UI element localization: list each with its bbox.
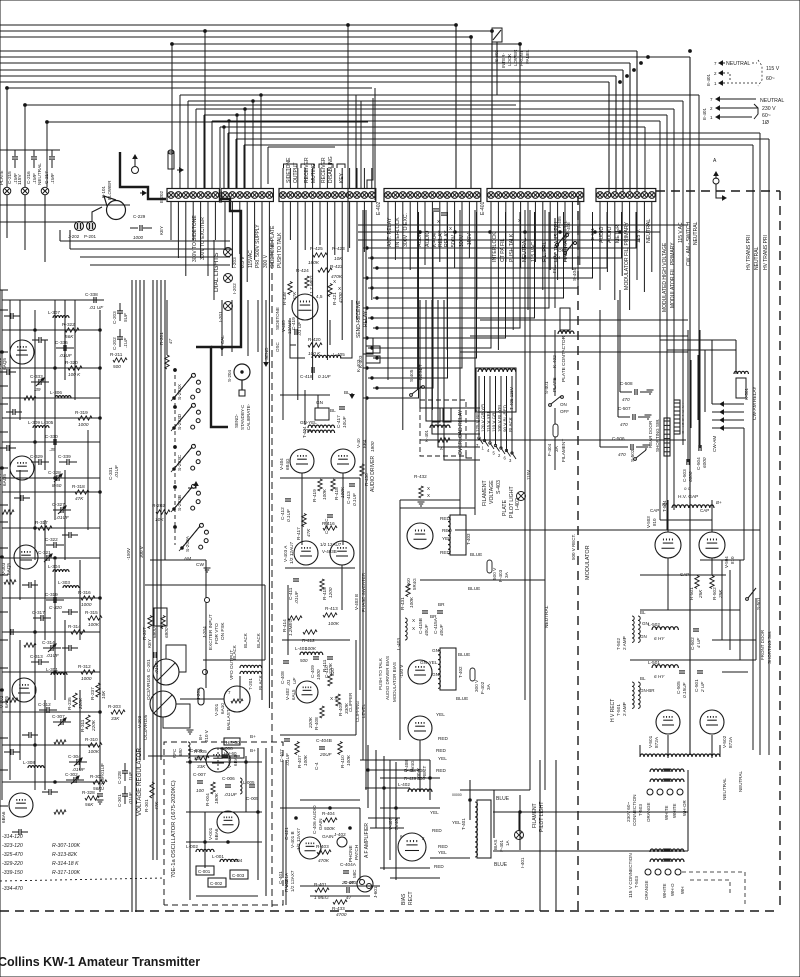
- svg-text:115 V CONNECTION: 115 V CONNECTION: [628, 853, 633, 898]
- wire: [0, 75, 616, 77]
- wire: [0, 701, 8, 703]
- component C-339: [66, 459, 68, 465]
- wire: [430, 857, 470, 859]
- wire: [373, 212, 433, 388]
- component: [24, 643, 36, 647]
- wire: [690, 360, 692, 428]
- wire: [0, 574, 8, 576]
- component C-312: [46, 707, 48, 713]
- svg-text:1000: 1000: [78, 422, 89, 427]
- wire: [54, 560, 56, 700]
- transformer T-503 230V: [650, 769, 670, 772]
- wire: [156, 280, 158, 860]
- junction: [34, 329, 37, 332]
- resistor R-501 25K: [695, 576, 699, 589]
- svg-text:5R4G: 5R4G: [412, 578, 417, 590]
- svg-text:T-201: T-201: [248, 678, 253, 690]
- wire: [700, 559, 744, 561]
- arrow: [44, 554, 52, 562]
- svg-text:BLUE: BLUE: [470, 552, 482, 557]
- svg-text:OFF: OFF: [558, 248, 568, 253]
- wire: [19, 300, 21, 420]
- relay K-401 coils: [432, 408, 440, 422]
- wire: [0, 50, 637, 52]
- component C-333: [38, 379, 40, 385]
- svg-text:.01UF: .01UF: [128, 791, 133, 805]
- svg-text:NEUTRAL: NEUTRAL: [544, 605, 550, 628]
- wafer rotor dashed line: [174, 368, 176, 545]
- resistor chain R-50x: [664, 418, 670, 456]
- wire: [461, 202, 463, 330]
- svg-text:R-319: R-319: [75, 410, 88, 415]
- label GN-YEL BL arrows: [351, 393, 353, 398]
- svg-text:C-228: C-228: [117, 771, 122, 784]
- svg-text:GN: GN: [432, 672, 439, 677]
- svg-text:E-402: E-402: [376, 201, 382, 215]
- svg-text:8-50: 8-50: [52, 483, 62, 488]
- wire: [712, 639, 756, 641]
- svg-text:S-204: S-204: [227, 369, 232, 382]
- junction: [34, 527, 37, 530]
- wire: [0, 221, 92, 223]
- wire: [557, 202, 559, 280]
- svg-text:NEUTRAL: NEUTRAL: [738, 770, 743, 792]
- svg-text:C-401: C-401: [278, 871, 283, 884]
- label R-301 47K: [150, 782, 154, 798]
- svg-text:500: 500: [113, 364, 121, 369]
- svg-text:R-314: R-314: [68, 624, 81, 629]
- wire: [371, 168, 373, 188]
- wire: [239, 202, 241, 254]
- wire: [360, 101, 362, 188]
- svg-text:6AQ5: 6AQ5: [2, 474, 7, 486]
- svg-text:-334-470: -334-470: [2, 886, 23, 892]
- svg-text:C-008: C-008: [220, 746, 233, 751]
- svg-text:NEUTRAL: NEUTRAL: [760, 98, 784, 104]
- svg-text:BL: BL: [640, 610, 646, 615]
- svg-text:LOCK: LOCK: [507, 54, 512, 66]
- junction: [54, 367, 57, 370]
- svg-text:00000: 00000: [452, 793, 462, 797]
- svg-text:47K: 47K: [154, 801, 159, 810]
- junction: [1, 351, 4, 354]
- wire: [0, 309, 8, 311]
- wire left terminal tails: [6, 195, 8, 238]
- wire: [621, 202, 623, 276]
- wire: [2, 557, 100, 559]
- fuse cylinder: [168, 152, 174, 169]
- capacitor C-402 47: [346, 887, 348, 893]
- wire: [172, 43, 520, 45]
- junction: [99, 367, 102, 370]
- inductor L-403: [405, 618, 407, 640]
- microphone jack MIC J-601: [357, 876, 373, 892]
- svg-text:220K: 220K: [328, 662, 333, 675]
- component: [6, 698, 18, 702]
- svg-text:300 V: 300 V: [474, 679, 479, 692]
- junction: [1, 689, 4, 692]
- wire: [2, 329, 100, 331]
- wire: [549, 202, 551, 270]
- inductor L-402: [408, 789, 432, 792]
- wire: [2, 671, 100, 673]
- component R-312: [81, 670, 95, 674]
- svg-text:BLACK: BLACK: [243, 633, 248, 648]
- resistor R-401 1MEG: [315, 888, 329, 892]
- wire: [69, 230, 71, 249]
- heavy VFO compartment bracket: [196, 347, 228, 427]
- junction: [594, 231, 597, 234]
- junction: [419, 231, 422, 234]
- wire: [195, 109, 197, 188]
- terminal PLATE: [3, 187, 11, 195]
- wire: [380, 777, 440, 779]
- lamp I-402: [517, 492, 526, 501]
- fuse F-405: [558, 234, 566, 244]
- wire: [304, 168, 306, 188]
- junction: [519, 811, 522, 814]
- transformer T-402: [440, 648, 456, 690]
- resistor R-410 100K: [338, 742, 342, 755]
- wire: [223, 127, 225, 188]
- switch tap: [507, 451, 511, 457]
- svg-text:V-503: V-503: [646, 516, 651, 528]
- wire: [264, 585, 266, 660]
- junction: [626, 75, 629, 78]
- inductor L-401 500: [300, 652, 323, 655]
- svg-text:C-006: C-006: [222, 776, 235, 781]
- svg-text:GN-YEL: GN-YEL: [300, 420, 317, 425]
- wire: [370, 827, 404, 829]
- wire: [99, 310, 101, 792]
- wires right mid: [687, 330, 689, 462]
- svg-text:115VAC: 115VAC: [248, 250, 254, 268]
- svg-text:2 AMP: 2 AMP: [622, 636, 627, 650]
- wire oc3 loop: [166, 645, 186, 672]
- switch tap: [512, 453, 516, 459]
- wire: [0, 24, 456, 26]
- wire: [2, 711, 100, 713]
- svg-text:C-001: C-001: [198, 869, 211, 874]
- wire: [615, 76, 617, 192]
- component R-317: [38, 526, 52, 530]
- svg-text:3A: 3A: [486, 683, 491, 690]
- svg-text:1200: 1200: [328, 587, 333, 598]
- component C-336: [63, 345, 65, 351]
- wire: [367, 745, 369, 808]
- svg-text:ON: ON: [560, 402, 567, 407]
- svg-text:S-203A: S-203A: [185, 535, 191, 552]
- svg-text:C-002: C-002: [210, 881, 223, 886]
- svg-text:MODULATED HIGH VOLTAGE: MODULATED HIGH VOLTAGE: [662, 242, 668, 312]
- wire: [368, 817, 400, 819]
- svg-text:R-211: R-211: [110, 352, 123, 357]
- wire: [87, 430, 89, 530]
- wire: [349, 168, 351, 188]
- wire: [164, 280, 166, 560]
- svg-text:C-415B: C-415B: [418, 618, 423, 634]
- terminal: [665, 869, 671, 875]
- component: [10, 749, 12, 755]
- resistor R-403 470K: [317, 850, 331, 854]
- component: [68, 645, 70, 651]
- wire: [224, 202, 226, 250]
- svg-text:C-417: C-417: [336, 415, 341, 428]
- wire label bracket: [301, 164, 314, 168]
- svg-text:L-309 L-305: L-309 L-305: [28, 420, 54, 425]
- wire: [2, 491, 100, 493]
- svg-text:F-404: F-404: [547, 443, 552, 456]
- wire: [383, 756, 385, 870]
- svg-text:470: 470: [620, 422, 628, 427]
- wire: [0, 289, 8, 291]
- svg-text:.01 UF: .01 UF: [89, 305, 104, 310]
- junction: [633, 69, 636, 72]
- svg-text:DISABLING: DISABLING: [328, 156, 334, 183]
- svg-text:OFF: OFF: [560, 409, 569, 414]
- svg-text:10K: 10K: [101, 690, 106, 699]
- junction: [99, 417, 102, 420]
- wire: [687, 770, 689, 851]
- svg-text:115 V.: 115 V.: [636, 229, 642, 243]
- svg-text:T-503: T-503: [638, 804, 643, 816]
- wire: [520, 202, 522, 268]
- svg-text:60~: 60~: [766, 76, 775, 82]
- wire: [363, 212, 636, 248]
- wire: [179, 95, 181, 188]
- capacitor C-415A 40UF: [437, 610, 443, 612]
- tube V-202 OC3/VR105: [153, 659, 179, 685]
- wire: [370, 769, 420, 771]
- wire: [265, 300, 267, 360]
- svg-text:6800: 6800: [152, 627, 157, 638]
- inductor L-502 6HY: [652, 627, 678, 630]
- wire: [236, 115, 238, 188]
- svg-text:R-005: R-005: [194, 749, 207, 754]
- wire: [432, 300, 480, 434]
- wire: [667, 500, 669, 532]
- svg-text:C-322: C-322: [45, 537, 58, 542]
- svg-text:INTERLOCK: INTERLOCK: [492, 232, 498, 262]
- svg-text:810: 810: [652, 518, 657, 526]
- wire: [341, 202, 343, 340]
- wire: [70, 248, 230, 250]
- svg-text:MODULATOR FIL. PRIMARY: MODULATOR FIL. PRIMARY: [670, 242, 676, 308]
- resistor R-202 10K: [156, 510, 170, 514]
- svg-text:C-301: C-301: [117, 794, 122, 807]
- component: [10, 313, 12, 319]
- wire: [493, 790, 495, 838]
- svg-text:6B4G: 6B4G: [285, 458, 290, 470]
- wire: [363, 202, 365, 252]
- wire label bracket: [337, 164, 345, 168]
- svg-text:R-311: R-311: [80, 719, 85, 732]
- wire: [729, 570, 731, 650]
- svg-text:B+: B+: [716, 500, 722, 505]
- wire: [297, 202, 299, 400]
- wire: [211, 121, 213, 188]
- capacitor C-006 .01UF: [225, 784, 231, 786]
- wire: [373, 212, 564, 298]
- svg-text:YEL: YEL: [452, 820, 461, 825]
- svg-text:V-201: V-201: [214, 703, 219, 716]
- wire: [438, 300, 480, 447]
- svg-text:I-401: I-401: [520, 857, 525, 868]
- wire: [363, 212, 462, 368]
- svg-text:BALLAST: BALLAST: [226, 709, 231, 730]
- wire: [180, 698, 224, 700]
- wire: [304, 202, 306, 250]
- svg-text:C-415A: C-415A: [433, 617, 438, 634]
- wire: [629, 63, 631, 192]
- svg-text:FILAMENT: FILAMENT: [482, 480, 488, 506]
- svg-text:C-005: C-005: [246, 796, 259, 801]
- terminal: [677, 789, 683, 795]
- component R-203: [111, 710, 125, 714]
- svg-text:180K: 180K: [214, 792, 219, 804]
- svg-text:R-422: R-422: [330, 264, 343, 269]
- resistor R-422 470K: [318, 268, 332, 272]
- svg-text:R-322: R-322: [62, 322, 75, 327]
- wire: [177, 202, 179, 258]
- wire: [429, 760, 431, 800]
- junction: [383, 787, 386, 790]
- wire: [363, 212, 506, 338]
- wire: [368, 212, 535, 318]
- junction: [257, 811, 260, 814]
- component C-322: [53, 542, 55, 548]
- tube V-302 6AQ5: [12, 678, 36, 702]
- svg-text:R-408: R-408: [314, 717, 319, 730]
- component C-329: [38, 459, 40, 465]
- svg-text:C-216: C-216: [26, 171, 31, 184]
- svg-text:C-229: C-229: [133, 214, 146, 219]
- svg-text:RECT: RECT: [408, 891, 414, 905]
- svg-text:B+: B+: [250, 748, 256, 753]
- wire: [395, 762, 397, 880]
- resistor R-409 330K: [336, 694, 340, 706]
- svg-text:NEUTRAL: NEUTRAL: [754, 246, 760, 270]
- svg-text:R-312: R-312: [78, 664, 91, 669]
- svg-text:180K: 180K: [308, 260, 320, 265]
- wire: [0, 204, 130, 206]
- svg-text:R-433: R-433: [332, 906, 345, 911]
- junction: [349, 827, 352, 830]
- wire: [644, 127, 646, 192]
- wire: [252, 101, 254, 188]
- svg-text:LOWER: LOWER: [513, 49, 518, 66]
- svg-text:BLUE: BLUE: [496, 796, 510, 802]
- junction: [1, 556, 4, 559]
- component C-319: [53, 597, 55, 603]
- wire: [166, 300, 168, 355]
- svg-text:NEUTRAL: NEUTRAL: [646, 219, 652, 243]
- svg-text:100K: 100K: [303, 754, 308, 766]
- svg-text:470K: 470K: [318, 858, 330, 863]
- svg-text:R-501: R-501: [689, 587, 694, 600]
- svg-text:S-404: S-404: [572, 268, 578, 281]
- svg-text:.1UF: .1UF: [128, 771, 133, 782]
- svg-text:E-401: E-401: [480, 201, 486, 215]
- arrow right: [140, 192, 146, 194]
- svg-text:BLOWER: BLOWER: [107, 180, 112, 200]
- capsule component: [198, 688, 204, 705]
- contactor K-402: [560, 308, 570, 330]
- tube V-501 872A: [656, 710, 680, 734]
- wire: [0, 504, 8, 506]
- svg-text:YEL: YEL: [436, 712, 445, 717]
- component L-301: [51, 673, 67, 675]
- junction: [470, 36, 473, 39]
- wire: [334, 202, 336, 255]
- component C-330: [53, 439, 55, 445]
- wire: [148, 755, 240, 757]
- wire: [2, 597, 100, 599]
- svg-text:4 UF: 4 UF: [696, 637, 701, 648]
- wire: [712, 403, 744, 405]
- resistor R-415 1200: [320, 579, 324, 591]
- transformer T-405: [476, 368, 516, 412]
- dashed border bottom y=911: [0, 910, 780, 912]
- svg-text:BL: BL: [344, 390, 350, 395]
- wire S-602 drop: [496, 42, 498, 95]
- wire: [476, 202, 478, 300]
- component R-322: [65, 328, 79, 332]
- svg-text:B+: B+: [250, 734, 256, 739]
- svg-text:I-203: I-203: [232, 257, 237, 268]
- svg-text:-339-150: -339-150: [2, 870, 23, 876]
- wire S-403 common: [466, 452, 472, 458]
- svg-text:V-405: V-405: [281, 320, 286, 332]
- wire: [606, 202, 608, 272]
- svg-text:40UF: 40UF: [439, 623, 444, 636]
- capacitor C-412 0.1UF: [285, 498, 291, 500]
- switch tap: [501, 448, 505, 454]
- resistor R-424 1.7MEG: [305, 276, 309, 288]
- oscillator dashed box 70E-1a: [164, 742, 283, 905]
- svg-text:40UF: 40UF: [424, 623, 429, 636]
- svg-text:R-310: R-310: [85, 737, 98, 742]
- svg-text:L-402: L-402: [398, 782, 410, 787]
- svg-text:872A: 872A: [654, 736, 659, 748]
- wire: [334, 168, 336, 188]
- svg-text:C-007: C-007: [193, 772, 206, 777]
- resistor R-416: [323, 526, 337, 530]
- transformer T-501: [632, 682, 634, 708]
- label HR-60: [224, 738, 240, 745]
- wire: [417, 202, 419, 390]
- transformer T-401: [477, 800, 491, 858]
- svg-text:100K: 100K: [322, 488, 327, 500]
- wire: [2, 441, 100, 443]
- wire: [519, 44, 521, 188]
- svg-text:C-333: C-333: [30, 374, 43, 379]
- svg-text:.01UF: .01UF: [46, 653, 60, 658]
- component R-314: [71, 630, 85, 634]
- relay K-501: [736, 378, 746, 398]
- svg-text:1/2 12AU7: 1/2 12AU7: [320, 542, 342, 547]
- wire: [257, 300, 259, 352]
- svg-text:230 V: 230 V: [762, 106, 776, 112]
- svg-text:GAIN: GAIN: [322, 834, 333, 839]
- junction: [54, 781, 57, 784]
- component: [12, 409, 14, 415]
- svg-text:300V TO EXC.: 300V TO EXC.: [403, 213, 409, 247]
- tube V-405 12AU7: [292, 294, 318, 320]
- svg-text:BIAS: BIAS: [493, 840, 498, 850]
- svg-text:F-402: F-402: [480, 681, 485, 694]
- svg-text:C-338: C-338: [85, 292, 98, 297]
